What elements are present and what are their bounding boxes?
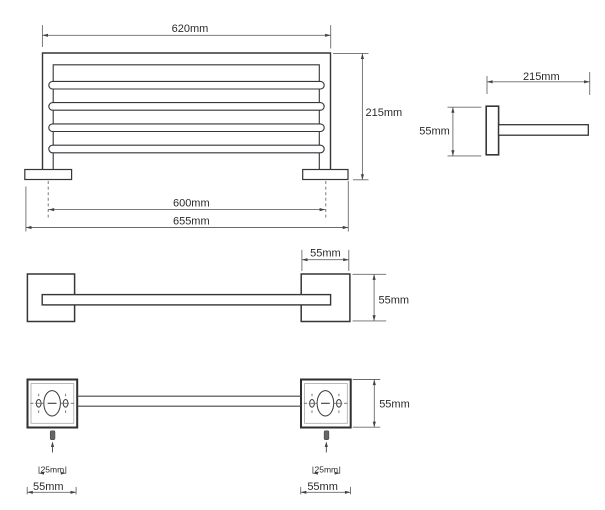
left mounting arrow (up)	[51, 441, 54, 452]
dimension 55mm (side view height)	[419, 107, 481, 156]
svg-text:55mm: 55mm	[379, 399, 410, 411]
dimension 620mm	[42, 23, 330, 49]
dimension 25mm (left anchor depth)	[39, 464, 66, 474]
left screw anchor	[50, 431, 55, 440]
towel bar 4	[49, 145, 324, 153]
right plate screw hole A crosshair	[304, 394, 317, 413]
dimension 655mm	[26, 215, 348, 229]
left wall plate (front)	[27, 274, 74, 322]
left plate screw hole B	[63, 400, 68, 408]
towel bar 2	[49, 103, 324, 111]
left plate screw hole A crosshair	[30, 394, 44, 413]
right plate inner face	[305, 384, 348, 424]
right plate center oval	[317, 391, 334, 416]
dimension 600mm	[49, 197, 326, 211]
svg-text:55mm: 55mm	[379, 295, 410, 307]
right plate screw hole B	[337, 400, 342, 408]
right screw anchor	[324, 431, 329, 440]
dimension 215mm (side view depth)	[487, 71, 590, 95]
towel bar (top view)	[77, 396, 301, 406]
left plate slot mark	[48, 402, 57, 404]
svg-text:620mm: 620mm	[172, 23, 209, 35]
dimension 55mm (right plate width, bottom)	[301, 481, 351, 494]
towel bar (front)	[42, 295, 330, 305]
left plate center oval	[44, 391, 61, 416]
svg-text:215mm: 215mm	[523, 71, 560, 83]
right mounting arrow (up)	[325, 441, 328, 452]
655mm right extension line	[347, 181, 349, 232]
shelf inner frame	[53, 65, 319, 170]
dimension 55mm (left plate width, bottom)	[27, 481, 76, 494]
towel bar 3	[49, 124, 324, 132]
bracket arm (side)	[499, 125, 589, 136]
svg-text:215mm: 215mm	[366, 107, 403, 119]
dimension 55mm (plate width, above right plate)	[302, 247, 349, 271]
dimension 55mm (plate height, right of view 3)	[353, 274, 410, 321]
left foot	[25, 170, 72, 180]
right plate slot mark	[321, 402, 330, 404]
svg-text:55mm: 55mm	[419, 125, 450, 137]
right mounting plate outline	[301, 380, 351, 428]
svg-text:55mm: 55mm	[33, 481, 64, 493]
svg-text:55mm: 55mm	[307, 481, 338, 493]
dashed projection line left foot	[47, 181, 49, 218]
right plate screw hole A	[310, 400, 315, 408]
left plate inner face	[31, 384, 74, 424]
right foot	[303, 170, 348, 180]
dimension 215mm (front view height)	[333, 53, 402, 179]
dimension 25mm (right anchor depth)	[313, 464, 340, 474]
towel bar 1	[49, 81, 324, 89]
wall plate (side)	[486, 106, 498, 155]
shelf outer frame	[43, 53, 331, 170]
right wall plate (front)	[301, 274, 350, 322]
svg-text:55mm: 55mm	[310, 247, 341, 259]
svg-text:25mm: 25mm	[314, 464, 338, 474]
svg-text:25mm: 25mm	[41, 464, 65, 474]
right plate screw hole B crosshair	[334, 394, 348, 413]
left plate screw hole B crosshair	[60, 394, 74, 413]
svg-text:655mm: 655mm	[173, 215, 210, 227]
655mm left extension line	[25, 187, 27, 232]
dashed projection line right foot	[325, 181, 327, 218]
left plate screw hole A	[36, 400, 41, 408]
svg-text:600mm: 600mm	[173, 197, 210, 209]
left mounting plate outline	[28, 380, 78, 428]
dimension 55mm (top view, right of right plate)	[353, 380, 410, 428]
